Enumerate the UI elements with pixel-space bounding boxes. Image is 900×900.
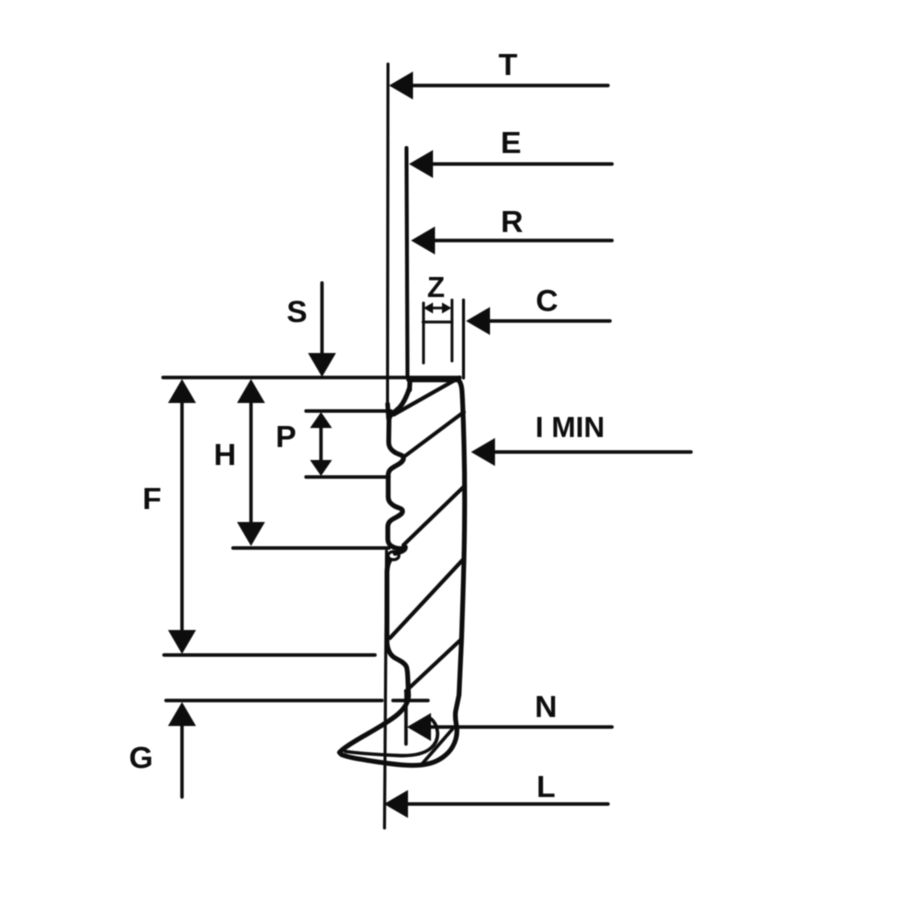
inner curl line of bottom bead bbox=[346, 719, 438, 756]
dimension F vertical line bbox=[180, 400, 183, 634]
extension line: P bottom bbox=[306, 475, 389, 478]
wire: E/R vertical extension line bbox=[407, 148, 408, 377]
dimension G vertical line bbox=[180, 722, 183, 797]
arrowhead H down bbox=[237, 522, 265, 546]
arrowhead T bbox=[389, 72, 413, 100]
svg-text:L: L bbox=[537, 769, 556, 804]
arrowhead R bbox=[411, 227, 435, 255]
arrowhead P down bbox=[310, 460, 332, 476]
svg-text:Z: Z bbox=[427, 272, 445, 304]
svg-text:R: R bbox=[501, 204, 523, 239]
svg-text:F: F bbox=[143, 481, 162, 516]
svg-text:E: E bbox=[501, 125, 522, 160]
node: thread start junction blob bbox=[388, 404, 389, 419]
hatch line D3 bbox=[404, 486, 466, 546]
dimension P vertical line bbox=[319, 426, 322, 462]
hatch line D1 bbox=[394, 378, 460, 415]
wire: Z connector bar bbox=[423, 321, 452, 324]
svg-text:H: H bbox=[214, 437, 236, 472]
dimension S vertical line bbox=[320, 283, 323, 354]
wire: top datum line (top of finish) bbox=[163, 376, 460, 379]
wire: main vertical centerline T-datum upper segment bbox=[386, 64, 390, 412]
svg-text:N: N bbox=[535, 689, 557, 724]
arrowhead I MIN bbox=[471, 438, 495, 466]
svg-text:T: T bbox=[499, 47, 518, 82]
wire: Z arrow bar bbox=[431, 307, 444, 310]
hatch line D6 in curl bbox=[422, 729, 453, 764]
dimension R line bbox=[431, 239, 612, 242]
dimension I MIN line bbox=[491, 450, 691, 453]
arrowhead L bbox=[384, 790, 408, 818]
arrowhead E bbox=[409, 150, 433, 178]
arrowhead N bbox=[407, 713, 431, 741]
dimension N line bbox=[427, 725, 612, 728]
node: N reference crosshair horizontal bbox=[393, 699, 428, 702]
arrowhead Z right bbox=[442, 303, 452, 314]
arrowhead F down bbox=[168, 630, 196, 654]
profile top edge thick band bbox=[409, 377, 459, 383]
svg-text:C: C bbox=[536, 283, 558, 318]
extension line: F bottom bbox=[164, 653, 375, 656]
extension line: P top bbox=[306, 409, 391, 412]
arrowhead F up bbox=[168, 379, 196, 403]
arrowhead P up bbox=[310, 412, 332, 428]
dimension E line bbox=[429, 162, 612, 165]
dimension C line bbox=[486, 319, 610, 322]
extension line: G top bbox=[166, 699, 382, 702]
node: N reference crosshair vertical bbox=[404, 691, 407, 744]
arrowhead G up bbox=[168, 702, 196, 726]
arrowhead C bbox=[466, 307, 490, 335]
wire: Z right extension line bbox=[451, 300, 454, 361]
wire: C extension line bbox=[462, 300, 465, 378]
svg-text:P: P bbox=[276, 419, 297, 454]
wire: main vertical centerline T-datum lower segment bbox=[385, 551, 387, 828]
dimension L line bbox=[404, 802, 608, 805]
hatch line D4 bbox=[390, 560, 463, 638]
svg-text:I MIN: I MIN bbox=[535, 412, 604, 444]
svg-text:S: S bbox=[287, 294, 308, 329]
extension line: H bottom bbox=[233, 546, 389, 549]
dimension T line bbox=[409, 84, 608, 87]
arrowhead S down bbox=[308, 353, 336, 377]
finish profile outline bbox=[340, 379, 465, 765]
thread runout knot loop bbox=[388, 552, 399, 560]
arrowhead Z left bbox=[424, 303, 434, 314]
arrowhead H up bbox=[237, 379, 265, 403]
hatch line D5 bbox=[406, 639, 462, 691]
svg-text:G: G bbox=[129, 740, 153, 775]
wire: Z left extension line bbox=[422, 303, 425, 363]
dimension H vertical line bbox=[249, 400, 252, 526]
hatch line D2 bbox=[403, 412, 464, 458]
